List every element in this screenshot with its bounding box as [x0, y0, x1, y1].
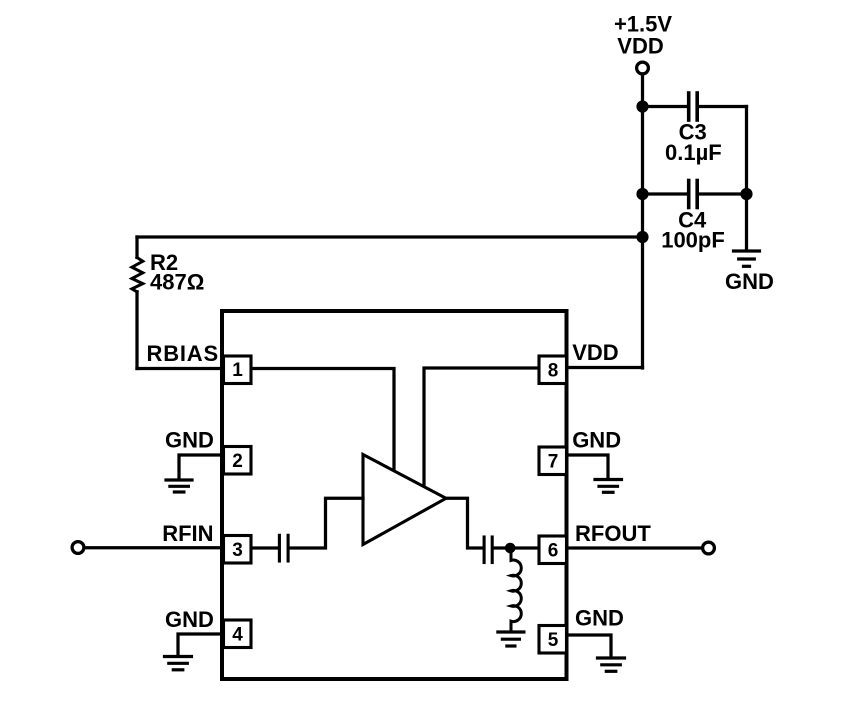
wire pin7 to ground: [567, 455, 609, 478]
wire top rail to R2: [137, 235, 643, 238]
wire RFIN input: [84, 546, 224, 549]
wire pin3 to input capacitor: [251, 546, 278, 549]
svg-text:2: 2: [232, 451, 243, 472]
junction at inductor tap: [505, 543, 516, 554]
pin 7: [539, 447, 567, 475]
capacitor C4: [643, 181, 747, 208]
wire R2 top segment: [135, 237, 138, 258]
svg-text:8: 8: [548, 360, 559, 381]
svg-text:100pF: 100pF: [661, 228, 725, 253]
ground top right: [734, 251, 760, 266]
resistor R2: [132, 258, 143, 292]
wire pin4 to ground: [178, 634, 222, 655]
svg-text:7: 7: [548, 451, 559, 472]
wire input capacitor to amp: [290, 498, 363, 548]
wire RBIAS to pin 1: [137, 367, 224, 370]
wire pin2 to ground: [179, 455, 224, 479]
svg-text:GND: GND: [165, 607, 214, 632]
op-amp amplifier triangle: [363, 455, 446, 545]
wire pin8 to amp top: [424, 368, 539, 486]
wire pin8 to VDD rail: [567, 366, 643, 369]
svg-text:1: 1: [232, 360, 243, 381]
svg-text:3: 3: [232, 540, 243, 561]
svg-text:GND: GND: [725, 269, 774, 294]
pin 2: [224, 447, 252, 475]
wire output capacitor to pin 6: [494, 546, 539, 549]
capacitor C3: [643, 93, 747, 120]
svg-text:RBIAS: RBIAS: [147, 341, 219, 366]
svg-text:RFOUT: RFOUT: [575, 521, 651, 546]
junction at RBIAS rail: [636, 231, 648, 243]
junction at C3 top: [636, 100, 648, 112]
pin 1: [224, 356, 252, 384]
pin 5: [539, 626, 567, 654]
svg-text:5: 5: [548, 630, 559, 651]
svg-text:VDD: VDD: [572, 340, 618, 365]
ground pin4: [165, 657, 192, 670]
inductor L1: [511, 548, 521, 631]
capacitor output coupling: [484, 537, 492, 563]
wire RFOUT: [567, 546, 703, 549]
junction at C4 left: [636, 188, 648, 200]
svg-text:6: 6: [548, 540, 559, 561]
node RFIN terminal: [72, 542, 84, 554]
capacitor input coupling: [279, 535, 288, 561]
wire R2 bottom segment: [135, 292, 138, 369]
svg-text:0.1µF: 0.1µF: [665, 140, 722, 165]
wire pin1 to amp input top: [251, 369, 394, 471]
svg-text:4: 4: [232, 624, 243, 645]
wire VDD vertical rail: [641, 74, 644, 368]
svg-text:RFIN: RFIN: [162, 521, 213, 546]
wire C3/C4 right side vertical: [745, 107, 748, 250]
node RFOUT terminal: [703, 542, 715, 554]
pin 3: [224, 536, 252, 564]
node VDD terminal: [637, 62, 649, 74]
svg-text:GND: GND: [572, 428, 621, 453]
pin 8: [539, 356, 567, 384]
op-amp IC body U1: [222, 311, 567, 679]
ground pin7: [595, 480, 622, 493]
svg-text:VDD: VDD: [617, 34, 663, 59]
wire amp output: [446, 498, 483, 548]
svg-text:GND: GND: [575, 605, 624, 630]
ground pin5: [598, 658, 625, 671]
ground under inductor: [498, 632, 524, 646]
svg-text:GND: GND: [165, 428, 214, 453]
junction at C4 right: [740, 188, 752, 200]
pin 6: [539, 536, 567, 564]
pin 4: [224, 620, 252, 648]
ground pin2: [166, 480, 192, 492]
svg-text:487Ω: 487Ω: [150, 270, 204, 295]
wire pin5 to ground: [567, 635, 612, 657]
